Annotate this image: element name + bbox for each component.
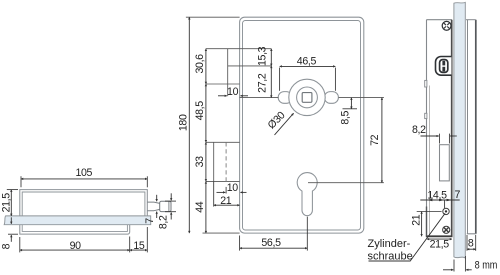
svg-text:21,5: 21,5 [1,193,13,213]
dimension 180 [188,17,190,233]
faceplate band (blue) [4,216,151,225]
spindle pin shaft [147,202,154,211]
lower tab box top [206,141,240,143]
svg-text:8,2: 8,2 [412,124,426,136]
svg-text:21: 21 [220,195,232,207]
faceplate front top edge [426,19,452,21]
lower plate outer outline [20,225,130,234]
svg-text:7: 7 [144,218,156,224]
lower screw [443,226,450,233]
dimension 90 [20,249,130,251]
extension tick for 10 [225,187,227,194]
white side bar bottom [467,233,476,235]
svg-text:90: 90 [70,240,82,252]
dimension 72 [381,98,383,183]
svg-text:14,5: 14,5 [427,189,447,201]
cylinder slot [440,145,450,181]
dimension 8,2 (pin) [170,193,172,200]
svg-text:15,3: 15,3 [256,46,268,66]
dimension 30,6 [205,49,207,84]
svg-text:7: 7 [455,189,461,201]
follower square hole [302,93,312,103]
centerline right of keyhole [308,182,384,184]
cylinder screw (Zylinderschraube) [443,208,449,214]
svg-text:8,2: 8,2 [157,215,169,229]
svg-text:44: 44 [194,201,206,213]
lock case side view outer outline [20,190,148,216]
svg-text:Zylinder-: Zylinder- [368,238,411,250]
lock case side view inner outline [22,192,145,216]
faceplate left tab 1 [425,80,427,87]
centerline left of follower [240,97,279,99]
svg-text:27,2: 27,2 [256,73,268,93]
follower left ear [278,92,292,104]
dimension 105 [21,178,147,180]
svg-text:10: 10 [227,86,239,98]
svg-text:30,6: 30,6 [194,54,206,74]
faceplate front bottom edge [426,235,453,237]
dimension 8 (white bar) [467,248,476,250]
top screw [442,21,451,30]
dimension 33 [205,142,207,181]
svg-text:105: 105 [75,167,92,179]
svg-text:21,5: 21,5 [430,238,450,250]
svg-text:8,5: 8,5 [339,111,351,125]
dimension 56,5 [240,247,308,249]
faceplate inner left line [428,86,430,236]
centerline right of follower [339,97,384,99]
diameter label Ø30 [275,113,294,135]
dimension 48,5 [205,84,207,142]
svg-text:180: 180 [177,114,189,131]
spindle pin head inner line [168,201,170,211]
extension case bottom left [203,232,240,234]
dimension 10 top [218,95,227,97]
follower inner circle [297,87,318,108]
lower tab box bottom [206,180,240,182]
svg-text:8: 8 [1,243,13,249]
follower outer circle [289,79,325,115]
dimension 8 (left) [10,217,12,224]
white side bar left line [467,20,469,234]
dimension 15,3 [270,49,272,66]
dimension 46,5 [280,65,336,67]
dimension 21,5 (plate) [427,238,452,240]
extension case top left [186,16,240,18]
svg-text:56,5: 56,5 [261,237,281,249]
svg-text:15: 15 [133,240,145,252]
white side bar right line [475,20,477,234]
latch bolt [440,60,448,73]
dimension 21 bottom [214,204,240,206]
lock case front inner outline [243,21,361,231]
dimension 10 bottom [217,191,226,193]
dimension 8 mm (blue bar) [453,260,455,272]
dimension 15 [130,249,148,251]
dimension 44 [205,181,207,233]
faceplate left tab 2 [425,113,427,118]
leader line [369,213,446,261]
extension line y48.7 [206,48,271,50]
dimension 8,5 [350,98,352,109]
svg-text:72: 72 [369,134,381,146]
extension line y84 [206,83,240,85]
lock case front outer outline [240,17,364,233]
svg-text:46,5: 46,5 [297,56,317,68]
svg-text:33: 33 [194,156,206,168]
lower tab dashed line [225,142,227,181]
keyhole euro profile [297,173,317,216]
svg-text:8 mm: 8 mm [475,260,498,272]
latch opening [436,57,452,76]
dimension 27,2 [270,66,272,98]
dimension 21,5 [10,190,12,216]
extension line y65.9 [228,65,272,67]
dimension 8,2 (slot) [421,135,439,137]
follower right ear [324,92,338,104]
spindle pin taper [154,202,160,211]
svg-text:8: 8 [468,237,474,249]
extension below tab box left [213,181,215,206]
lower plate inner outline [22,225,127,232]
spindle pin head [160,201,171,211]
faceplate front left edge [426,20,428,237]
svg-text:48,5: 48,5 [194,101,206,121]
dimension 7 (pin) [156,195,158,202]
svg-text:10: 10 [227,182,239,194]
faceplate lower-left dark edge [426,207,428,237]
top feature vertical line [227,49,229,96]
svg-text:21: 21 [410,214,422,226]
blue side bar [454,2,465,258]
white side bar top [466,19,476,21]
lower tab box left edge [213,142,215,181]
dimension 14,5 and 7 [420,199,459,201]
dimension 21 (right) [421,212,423,237]
faceplate front right edge [451,20,453,237]
